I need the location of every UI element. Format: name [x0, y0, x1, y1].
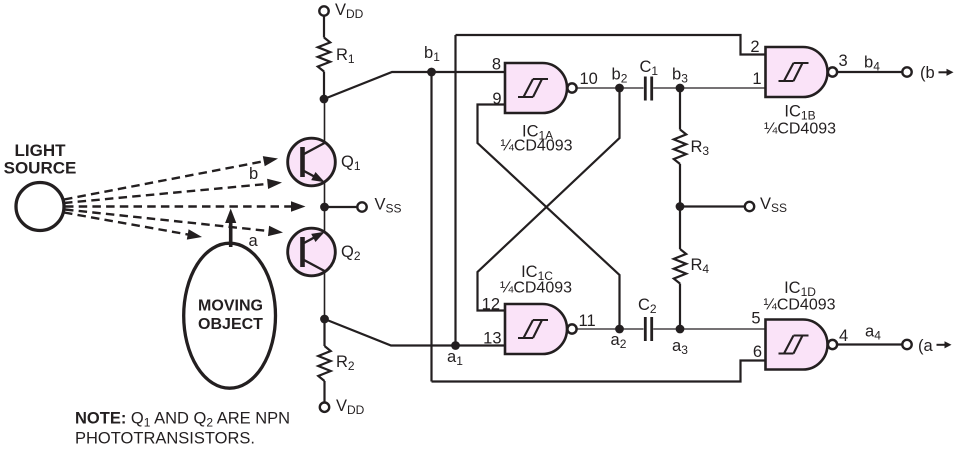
- capacitor C2: [644, 317, 647, 341]
- wire R3 to VSS node: [679, 164, 681, 207]
- power terminal VSS left: [357, 202, 366, 211]
- svg-text:(a: (a: [918, 337, 933, 355]
- node a3: [676, 325, 685, 334]
- wire IC1A output to C1: [577, 87, 644, 89]
- transistor Q1 (NPN phototransistor): [288, 138, 336, 186]
- wire VSS node to R4: [679, 207, 681, 250]
- svg-text:R1: R1: [336, 46, 355, 66]
- wire a1 vertical up to top feedback: [454, 35, 456, 346]
- svg-text:12: 12: [482, 296, 500, 314]
- wire C1 to IC1B pin 1: [653, 87, 765, 89]
- power terminal VDD bottom: [320, 403, 329, 412]
- op-amp U3: NAND gate IC1C: [505, 304, 567, 354]
- svg-text:R2: R2: [336, 353, 355, 373]
- svg-text:a2: a2: [611, 331, 627, 351]
- svg-text:R3: R3: [691, 138, 710, 158]
- svg-text:VSS: VSS: [760, 195, 787, 215]
- wire light ray 2 (b) dashed: [64, 184, 270, 203]
- wire VDD to R1: [323, 16, 325, 38]
- wire light ray 3 (middle) dashed: [65, 205, 293, 207]
- svg-text:NOTE: Q1 AND Q2 ARE NPN: NOTE: Q1 AND Q2 ARE NPN: [75, 410, 290, 430]
- svg-text:VDD: VDD: [336, 397, 365, 417]
- svg-text:b: b: [249, 165, 258, 183]
- svg-text:10: 10: [580, 70, 598, 88]
- op-amp U4: NAND gate IC1D: [766, 320, 828, 370]
- wire light ray 5 (bottom) dashed: [64, 213, 190, 235]
- wire Q1 emitter to VSS node: [324, 182, 326, 207]
- svg-text:PHOTOTRANSISTORS.: PHOTOTRANSISTORS.: [75, 430, 255, 448]
- node a2: [615, 325, 624, 334]
- wire Q2 collector to node: [324, 271, 326, 319]
- node b3: [676, 84, 685, 93]
- wire collector node to b1 row (diagonal): [324, 72, 505, 99]
- svg-text:b1: b1: [424, 44, 440, 64]
- resistor R1: [318, 38, 330, 72]
- moving object up arrow: [229, 221, 233, 247]
- wire IC1B output: [838, 71, 903, 73]
- svg-text:MOVING: MOVING: [198, 298, 263, 315]
- svg-text:¼CD4093: ¼CD4093: [764, 121, 836, 138]
- node b1: [427, 68, 436, 77]
- svg-text:VSS: VSS: [375, 196, 402, 216]
- op-amp U2: NAND gate IC1B: [766, 47, 828, 97]
- svg-text:2: 2: [750, 38, 759, 56]
- wire node to R2: [323, 319, 325, 346]
- wire IC1A pin 9 cross-couple to a2: [478, 105, 620, 330]
- svg-text:R4: R4: [691, 256, 710, 276]
- svg-text:1: 1: [752, 70, 761, 88]
- wire VSS stub: [325, 206, 358, 208]
- wire IC1C pin 12 cross-couple to b2: [478, 88, 620, 311]
- light source circle: [16, 183, 64, 231]
- svg-text:C2: C2: [638, 296, 657, 316]
- op-amp U1: NAND gate IC1A: [505, 63, 567, 113]
- wire IC1D output: [838, 343, 903, 345]
- svg-text:(b: (b: [920, 64, 935, 82]
- node junction R1/Q1 collector: [320, 95, 329, 104]
- wire light ray 1 (top) dashed: [64, 161, 266, 200]
- wire Q2 node to a1 row (diagonal): [325, 319, 506, 346]
- wire R2 to VDD bottom: [323, 381, 325, 403]
- svg-text:b4: b4: [864, 54, 880, 74]
- wire junction to Q1 collector: [324, 99, 326, 143]
- wire C2 to IC1D pin 5: [653, 328, 765, 330]
- svg-text:¼CD4093: ¼CD4093: [500, 138, 572, 155]
- node a1: [451, 341, 460, 350]
- svg-text:SOURCE: SOURCE: [4, 159, 77, 178]
- resistor R3: [674, 130, 686, 165]
- svg-text:VDD: VDD: [335, 1, 364, 21]
- svg-text:b3: b3: [672, 66, 688, 86]
- svg-text:b2: b2: [612, 66, 628, 86]
- svg-text:11: 11: [579, 312, 596, 330]
- node junction VSS right: [676, 202, 685, 211]
- wire b1 vertical down to bottom feedback: [430, 72, 432, 382]
- svg-text:OBJECT: OBJECT: [198, 316, 263, 333]
- svg-text:a1: a1: [447, 348, 463, 368]
- power terminal VSS right: [745, 202, 754, 211]
- svg-text:C1: C1: [640, 58, 659, 78]
- node junction Q2 collector/R2: [320, 315, 329, 324]
- power terminal VDD top: [319, 6, 328, 15]
- svg-text:6: 6: [753, 343, 762, 361]
- svg-text:13: 13: [483, 330, 501, 348]
- output terminal a4: [902, 340, 911, 349]
- wire light ray 4 (a) dashed: [65, 210, 271, 232]
- svg-text:¼CD4093: ¼CD4093: [763, 297, 835, 314]
- node b2: [615, 84, 624, 93]
- wire IC1C output to C2: [577, 328, 644, 330]
- svg-text:4: 4: [839, 327, 848, 345]
- svg-text:Q2: Q2: [341, 243, 361, 263]
- svg-text:LIGHT: LIGHT: [15, 141, 67, 160]
- svg-text:Q1: Q1: [341, 153, 361, 173]
- wire b3 down to R3: [679, 88, 681, 130]
- resistor R4: [674, 249, 686, 284]
- wire VSS stub right: [680, 205, 745, 207]
- wire VSS node to Q2 emitter: [324, 207, 326, 232]
- wire top feedback to IC1B pin 2: [456, 35, 766, 55]
- svg-text:a3: a3: [672, 337, 688, 357]
- svg-text:5: 5: [751, 310, 760, 328]
- moving object ellipse: [184, 243, 276, 388]
- capacitor C1: [644, 77, 647, 101]
- wire bottom feedback to IC1D pin 6: [432, 361, 766, 382]
- svg-text:¼CD4093: ¼CD4093: [500, 280, 572, 297]
- output terminal b4: [902, 67, 911, 76]
- svg-text:a4: a4: [865, 323, 881, 343]
- transistor Q2 (NPN phototransistor): [288, 228, 336, 276]
- svg-text:a: a: [249, 232, 259, 250]
- svg-text:3: 3: [839, 52, 848, 70]
- svg-text:IC1B: IC1B: [784, 103, 815, 123]
- svg-text:8: 8: [492, 56, 501, 74]
- node junction VSS left: [320, 203, 329, 212]
- resistor R2: [318, 346, 330, 381]
- wire R1 to collector node: [323, 72, 325, 100]
- wire R4 to a3: [679, 284, 681, 330]
